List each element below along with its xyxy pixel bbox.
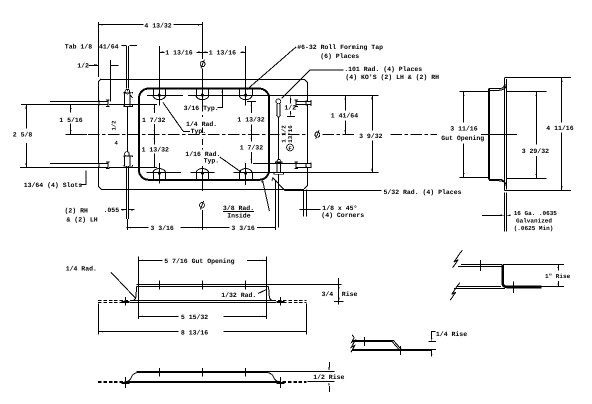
- extension tick right top: [247, 101, 256, 103]
- side view centerline: [481, 134, 517, 136]
- svg-text:Galvanized: Galvanized: [516, 217, 552, 224]
- svg-text:Typ.: Typ.: [204, 157, 220, 164]
- hole centerline verticals: [159, 52, 161, 105]
- svg-text:41/64: 41/64: [99, 43, 119, 50]
- screw hole tab top row x=159.3: [158, 94, 161, 97]
- dim 2 5/8 left: [26, 105, 28, 129]
- profile 1/2 rise base dashed overhangs: [98, 381, 127, 383]
- side view top bend arcs: [499, 79, 504, 89]
- dim 3/4 Rise: [338, 278, 340, 305]
- profile 1/2 rise base solid: [128, 381, 278, 383]
- label 1/4 Rad. Typ with leader: [163, 103, 183, 132]
- dim 5 15/32: [138, 316, 178, 318]
- datum circle symbol: [287, 144, 294, 151]
- svg-text:1 7/32: 1 7/32: [240, 144, 264, 151]
- svg-text:3 3/16: 3 3/16: [150, 225, 174, 232]
- dim 1 inch Rise: [503, 264, 564, 266]
- side view top tip cap: [505, 77, 507, 79]
- svg-text:4: 4: [115, 140, 119, 147]
- dim column right 1 13/32 / 1 7/32: [251, 101, 253, 113]
- svg-text:.055: .055: [104, 207, 120, 214]
- svg-text:1/4 Rad.: 1/4 Rad.: [186, 121, 217, 128]
- svg-text:(6) Places: (6) Places: [320, 53, 359, 60]
- svg-text:1/2: 1/2: [77, 62, 89, 69]
- svg-text:5 15/32: 5 15/32: [181, 314, 208, 321]
- side view raised face sheet: [488, 89, 490, 180]
- svg-text:5/32 Rad. (4) Places: 5/32 Rad. (4) Places: [384, 189, 462, 196]
- slot lower-right lines: [296, 163, 311, 165]
- side view bottom wall of rise: [489, 179, 499, 181]
- side view base plate sheet edge: [504, 78, 506, 190]
- extension lines left slots: [21, 104, 108, 106]
- detail 1 inch rise cross mark: [513, 281, 515, 293]
- dim 3 3/16 right: [202, 227, 229, 229]
- svg-text:1 13/32: 1 13/32: [237, 116, 264, 123]
- dim column left 1 7/32 / 1 13/32: [154, 105, 156, 113]
- svg-text:1 13/16: 1 13/16: [209, 50, 236, 57]
- horizontal centerline with symbol: [66, 134, 87, 136]
- front view base flange solid: [133, 300, 273, 302]
- svg-text:1 5/16: 1 5/16: [59, 117, 83, 124]
- hole centerline horizontals top row: [147, 95, 183, 97]
- side view bottom tip cap: [505, 190, 507, 192]
- svg-text:3/16 Typ.: 3/16 Typ.: [184, 105, 219, 112]
- hole centerline horizontals bottom row: [147, 172, 182, 174]
- svg-text:3 11/16: 3 11/16: [450, 126, 477, 133]
- raised section rounded rectangle (thick): [139, 89, 269, 180]
- plate right edge with slot notches: [307, 82, 309, 101]
- detail 1/4 rise lower sheet: [353, 349, 436, 351]
- svg-text:.101 Rad. (4) Places: .101 Rad. (4) Places: [344, 66, 422, 73]
- svg-text:3 9/32: 3 9/32: [359, 133, 383, 140]
- svg-text:13/16: 13/16: [287, 125, 294, 143]
- dim 5 7/16 Gut Opening: [138, 260, 162, 262]
- front view base flange dashed overhang right: [273, 300, 307, 302]
- dim 3 29/32: [536, 92, 538, 145]
- slot upper-left lines: [50, 101, 108, 103]
- front view slot marks on flange: [125, 297, 127, 306]
- slot upper-right end bracket: [295, 100, 312, 106]
- svg-text:1 7/32: 1 7/32: [142, 117, 166, 124]
- dim 1 13/16 pair: [159, 52, 164, 54]
- svg-text:1 41/64: 1 41/64: [331, 113, 358, 120]
- dim 8 13/16: [98, 331, 178, 333]
- plate right edge notch jogs: [306, 101, 307, 167]
- svg-text:(4) Corners: (4) Corners: [321, 212, 364, 219]
- svg-text:2 5/8: 2 5/8: [13, 132, 33, 139]
- plate outline bottom edge: [101, 189, 304, 191]
- screw hole tab top row x=245.7: [244, 94, 247, 97]
- front view base flange dashed overhang left: [98, 300, 132, 302]
- svg-text:(4) KO'S (2) LH & (2) RH: (4) KO'S (2) LH & (2) RH: [345, 74, 439, 81]
- profile 1/2 rise right bend: [268, 373, 277, 382]
- detail 1 inch rise upper sheet: [461, 264, 503, 266]
- detail 1 inch rise break line top: [453, 250, 463, 268]
- front view raised top surface: [137, 284, 269, 286]
- slot upper-left end bracket: [106, 100, 109, 106]
- svg-text:16 Ga. .0635: 16 Ga. .0635: [514, 210, 558, 217]
- svg-text:4 11/16: 4 11/16: [546, 125, 573, 132]
- profile 1/2 rise left bend: [128, 373, 137, 382]
- svg-text:1" Rise: 1" Rise: [545, 273, 571, 280]
- front view hole tick marks: [159, 281, 161, 290]
- extension line right bottom slot: [253, 163, 296, 165]
- svg-text:Typ.: Typ.: [191, 128, 207, 135]
- svg-text:Tab 1/8: Tab 1/8: [65, 43, 92, 50]
- material note 16 Ga Galvanized with arrows: [482, 215, 501, 217]
- screw hole tab bottom row x=245.7: [244, 172, 247, 175]
- plate left edge notch jogs: [98, 100, 99, 167]
- svg-text:(2) RH: (2) RH: [65, 208, 89, 215]
- profile 1/2 rise hole ticks: [159, 368, 161, 377]
- detail 1 inch rise lower sheet: [457, 286, 502, 288]
- screw hole tab bottom row x=159.3: [158, 172, 161, 175]
- screw hole tab bottom row x=202.4: [201, 172, 204, 175]
- detail 1/4 rise break line: [351, 335, 355, 353]
- slot lower-left lines: [50, 163, 108, 165]
- profile 1/2 rise top surface: [137, 371, 269, 373]
- knockout tab upper-left: [126, 46, 128, 89]
- svg-text:1/2 Rise: 1/2 Rise: [313, 374, 344, 381]
- dim 4 11/16: [561, 78, 563, 123]
- svg-text:1/8 x 45°: 1/8 x 45°: [322, 205, 357, 212]
- vertical centerline with symbol: [202, 22, 204, 59]
- knockout tab upper-right: [276, 99, 281, 104]
- svg-text:3 3/16: 3 3/16: [231, 225, 255, 232]
- front view top surface extension right: [269, 284, 342, 286]
- svg-text:F: F: [288, 146, 291, 152]
- profile 1/2 rise slot marks: [125, 377, 127, 388]
- svg-text:13/64 (4) Slots: 13/64 (4) Slots: [24, 182, 83, 189]
- side view sheet thickness extension lines: [504, 192, 506, 231]
- svg-text:1/2: 1/2: [110, 120, 117, 131]
- svg-text:#6-32 Roll Forming Tap: #6-32 Roll Forming Tap: [297, 44, 383, 51]
- detail 1 inch rise break line bottom: [450, 283, 460, 301]
- detail 1 inch rise tick: [480, 260, 482, 271]
- front view left wall bend: [133, 287, 137, 301]
- svg-text:1 13/32: 1 13/32: [142, 147, 169, 154]
- svg-text:1 13/16: 1 13/16: [165, 50, 192, 57]
- detail 1/4 rise upper sheet: [353, 340, 394, 342]
- extension lines from left slots into plate: [109, 104, 157, 106]
- svg-text:& (2) LH: & (2) LH: [67, 217, 98, 224]
- side view top wall of rise: [489, 88, 499, 90]
- svg-text:5 7/16 Gut Opening: 5 7/16 Gut Opening: [164, 258, 234, 265]
- slot lower-left end bracket: [106, 162, 109, 168]
- svg-text:3/4: 3/4: [322, 291, 334, 298]
- plate chamfer corners 1/8 x 45: [98, 79, 307, 189]
- svg-text:3 29/32: 3 29/32: [522, 148, 549, 155]
- screw hole tab top row x=202.4: [201, 94, 204, 97]
- side view bottom bend arcs: [499, 179, 504, 189]
- svg-text:8 13/16: 8 13/16: [181, 329, 208, 336]
- plate outline top edge: [101, 79, 304, 81]
- svg-text:1/32 Rad.: 1/32 Rad.: [221, 292, 256, 299]
- svg-text:1/4 Rise: 1/4 Rise: [436, 331, 467, 338]
- detail 1 inch rise bend (thick): [503, 265, 542, 287]
- dim 3 3/16 left: [127, 227, 149, 229]
- dim 3 11/16 Gut Opening: [463, 92, 465, 123]
- svg-text:Inside: Inside: [227, 212, 251, 219]
- svg-text:Gut Opening: Gut Opening: [441, 135, 484, 142]
- svg-text:Rise: Rise: [342, 291, 358, 298]
- svg-text:(.0625 Min): (.0625 Min): [514, 225, 554, 232]
- knockout tab lower-left: [125, 152, 130, 157]
- detail 1/4 rise tick: [364, 337, 366, 346]
- dim 1/2 Rise: [268, 371, 334, 373]
- svg-text:1/2: 1/2: [284, 104, 296, 111]
- slot upper-right lines: [296, 101, 311, 103]
- knockout tab lower-right: [277, 159, 281, 163]
- detail 1/4 rise slope: [392, 340, 401, 349]
- detail 1/4 rise cross mark: [400, 346, 402, 355]
- dim 1 5/16 left: [70, 105, 72, 113]
- slot lower-right end bracket: [295, 162, 312, 168]
- front view right wall bend: [269, 287, 273, 301]
- dim 4 13/32 top: [98, 24, 143, 26]
- svg-text:4 13/32: 4 13/32: [144, 22, 171, 29]
- svg-text:3/8 Rad.: 3/8 Rad.: [223, 205, 254, 212]
- svg-text:1/4 Rad.: 1/4 Rad.: [66, 266, 97, 273]
- plate left edge with slot notches: [98, 82, 100, 100]
